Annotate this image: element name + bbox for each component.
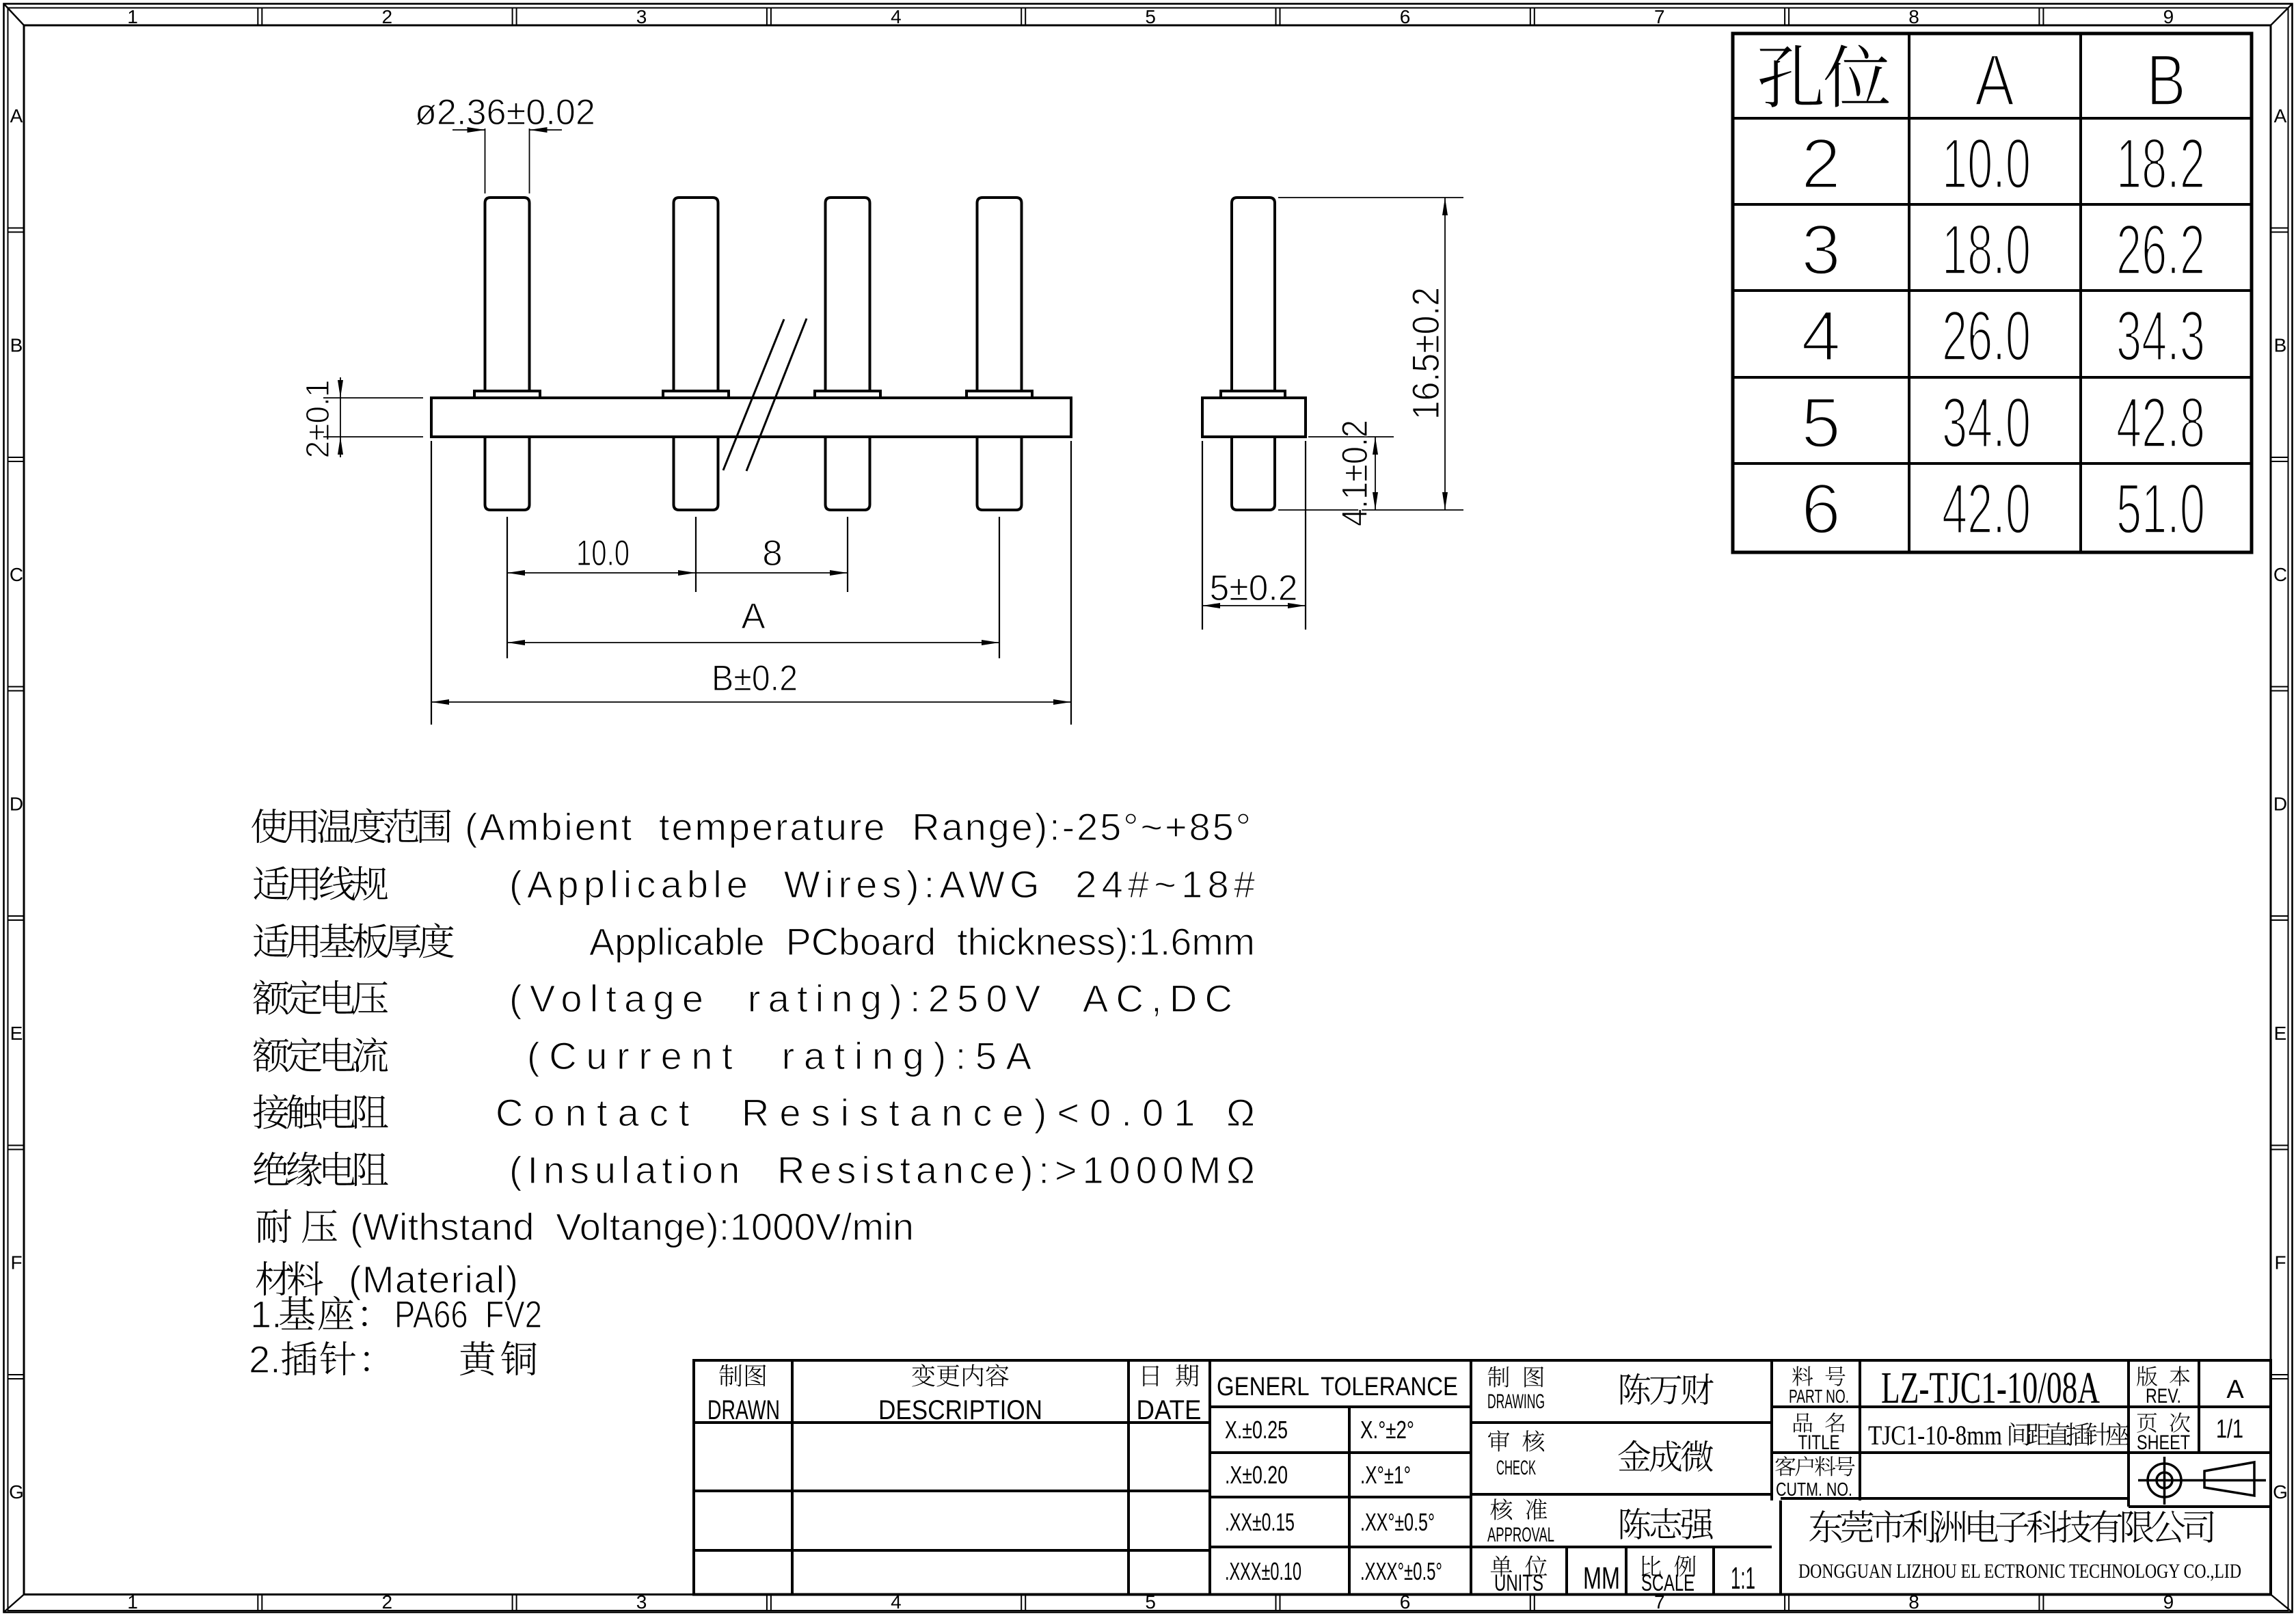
svg-text:DRAWING: DRAWING xyxy=(1487,1390,1545,1413)
hole position table grid xyxy=(1733,33,2252,552)
svg-text:CUTM. NO.: CUTM. NO. xyxy=(1776,1479,1852,1500)
svg-text:10.0: 10.0 xyxy=(576,533,630,574)
zone numbers top xyxy=(127,6,2174,27)
svg-text:4.1±0.2: 4.1±0.2 xyxy=(1335,420,1375,526)
header 日期 DATE xyxy=(1143,1364,1198,1386)
zone letters right xyxy=(2273,105,2288,1503)
dimension 4.1±0.2 lines xyxy=(1308,437,1394,510)
svg-text:18.2: 18.2 xyxy=(2116,124,2205,204)
title block grid xyxy=(694,1360,2271,1595)
dimension 16.5±0.2 lines xyxy=(1278,198,1463,510)
label 版本 REV. xyxy=(2137,1366,2190,1386)
svg-text:18.0: 18.0 xyxy=(1942,211,2031,290)
svg-text:2: 2 xyxy=(382,6,393,27)
front view pin 3 collar xyxy=(815,391,880,398)
svg-text:(Insulation Resistance):>1000: (Insulation Resistance):>1000MΩ xyxy=(509,1148,1255,1191)
svg-text:(Withstand Voltange):1000V/mi: (Withstand Voltange):1000V/min xyxy=(350,1205,914,1248)
spec line 材料 xyxy=(256,1261,323,1295)
svg-text:F: F xyxy=(10,1252,22,1274)
svg-text:26.2: 26.2 xyxy=(2116,211,2205,290)
side view collar xyxy=(1221,391,1285,398)
front view pin 4 collar xyxy=(967,391,1032,398)
svg-text:42.8: 42.8 xyxy=(2116,383,2205,463)
front view pin 2 upper shaft xyxy=(674,198,718,391)
table header 孔位 xyxy=(1759,45,1889,107)
svg-text:16.5±0.2: 16.5±0.2 xyxy=(1404,287,1447,420)
svg-text:3: 3 xyxy=(636,6,647,27)
svg-text:APPROVAL: APPROVAL xyxy=(1487,1524,1554,1546)
svg-text:(Voltage rating):250V AC,DC: (Voltage rating):250V AC,DC xyxy=(509,977,1232,1020)
svg-text:34.3: 34.3 xyxy=(2116,297,2205,376)
svg-text:2.: 2. xyxy=(249,1338,281,1381)
svg-text:F: F xyxy=(2274,1252,2286,1274)
svg-text:D: D xyxy=(2273,794,2287,815)
front view pin 2 collar xyxy=(663,391,729,398)
svg-text:9: 9 xyxy=(2163,6,2174,27)
svg-text:2±0.1: 2±0.1 xyxy=(300,380,336,459)
svg-text:10.0: 10.0 xyxy=(1942,124,2031,204)
svg-text:B: B xyxy=(2146,39,2186,121)
svg-text:.XXX°±0.5°: .XXX°±0.5° xyxy=(1360,1557,1442,1585)
svg-text:(Applicable Wires):AWG 24#~1: (Applicable Wires):AWG 24#~18# xyxy=(509,863,1255,906)
front view pin 1 upper shaft xyxy=(485,198,530,391)
svg-text:E: E xyxy=(10,1023,23,1044)
svg-text:6: 6 xyxy=(1400,6,1411,27)
svg-text:26.0: 26.0 xyxy=(1942,297,2031,376)
front view pin 1 collar xyxy=(474,391,540,398)
svg-text:DRAWN: DRAWN xyxy=(707,1395,780,1425)
spec line 耐压 xyxy=(256,1209,336,1243)
svg-text:PART NO.: PART NO. xyxy=(1789,1386,1849,1407)
svg-text:1:1: 1:1 xyxy=(1731,1561,1755,1595)
spec line 额定电流 xyxy=(253,1037,388,1072)
front view pin 1 lower shaft xyxy=(485,437,530,510)
side view body xyxy=(1202,398,1306,437)
svg-text:8: 8 xyxy=(762,533,782,574)
svg-text:4: 4 xyxy=(891,6,902,27)
header 变更内容 DESCRIPTION xyxy=(912,1364,1008,1386)
svg-text:DATE: DATE xyxy=(1137,1395,1202,1425)
side view body edge extension lines xyxy=(1202,441,1306,630)
svg-text:PA66 FV2: PA66 FV2 xyxy=(394,1293,542,1336)
svg-text:1: 1 xyxy=(127,6,138,27)
label 品名 TITLE xyxy=(1794,1412,1844,1432)
svg-text:D: D xyxy=(10,794,23,815)
svg-text:SCALE: SCALE xyxy=(1641,1570,1694,1596)
zone letters left xyxy=(9,105,24,1503)
spec line 额定电压 xyxy=(253,980,388,1014)
header 制图 DRAWN xyxy=(719,1364,766,1387)
svg-text:E: E xyxy=(2274,1023,2287,1044)
svg-text:REV.: REV. xyxy=(2146,1385,2181,1408)
svg-text:X.±0.25: X.±0.25 xyxy=(1225,1416,1288,1444)
name 陈志强 xyxy=(1621,1508,1713,1539)
zone ticks top and bottom xyxy=(258,9,2043,1611)
svg-text:Applicable PCboard thickness: Applicable PCboard thickness):1.6mm xyxy=(589,920,1255,963)
svg-text:TJC1-10-8mm: TJC1-10-8mm xyxy=(1868,1420,2002,1451)
company name CJK xyxy=(1809,1510,2214,1543)
svg-text:4: 4 xyxy=(1801,297,1841,376)
svg-text:LZ-TJC1-10/08A: LZ-TJC1-10/08A xyxy=(1881,1363,2100,1413)
svg-text:8: 8 xyxy=(1908,6,1919,27)
svg-text:42.0: 42.0 xyxy=(1942,470,2031,549)
front view pin 3 upper shaft xyxy=(826,198,870,391)
svg-text:A: A xyxy=(10,105,23,126)
label 页次 SHEET xyxy=(2137,1412,2190,1433)
side view pin upper shaft xyxy=(1232,198,1275,391)
front view pin 4 upper shaft xyxy=(977,198,1022,391)
svg-text:X.°±2°: X.°±2° xyxy=(1360,1416,1414,1444)
name 金成微 xyxy=(1619,1440,1714,1472)
label 单位 UNITS xyxy=(1491,1555,1548,1576)
svg-text:A: A xyxy=(1975,39,2015,121)
svg-text:3: 3 xyxy=(1801,211,1841,290)
spec line 适用线规 xyxy=(254,866,388,900)
name 陈万财 xyxy=(1621,1373,1714,1405)
spec line 接触电阻 xyxy=(253,1094,388,1129)
svg-text:B±0.2: B±0.2 xyxy=(712,658,798,699)
break symbol xyxy=(723,319,784,470)
front view connector body bar xyxy=(431,398,1071,437)
svg-text:(Ambient temperature Range):: (Ambient temperature Range):-25°~+85° xyxy=(465,805,1251,848)
svg-text:5: 5 xyxy=(1145,6,1156,27)
svg-text:5: 5 xyxy=(1801,383,1841,463)
svg-text:2: 2 xyxy=(382,1591,393,1613)
label 比例 SCALE xyxy=(1642,1556,1696,1577)
spec line 适用基板厚度 xyxy=(254,923,454,958)
svg-text:.X°±1°: .X°±1° xyxy=(1360,1461,1411,1489)
svg-text:1.: 1. xyxy=(250,1293,282,1336)
svg-text:C: C xyxy=(2273,564,2287,585)
svg-text:1: 1 xyxy=(127,1591,138,1613)
svg-text:A: A xyxy=(741,596,766,636)
dimension 2±0.1 lines xyxy=(323,377,423,457)
spec line 绝缘电阻 xyxy=(254,1152,388,1186)
svg-text:ø2.36±0.02: ø2.36±0.02 xyxy=(415,92,595,133)
svg-text:5±0.2: 5±0.2 xyxy=(1210,568,1298,608)
svg-text:.X±0.20: .X±0.20 xyxy=(1225,1461,1288,1489)
zone ticks left and right xyxy=(9,228,2288,1379)
svg-text:1/1: 1/1 xyxy=(2216,1415,2243,1444)
svg-text:2: 2 xyxy=(1801,124,1841,204)
svg-text:B: B xyxy=(2274,335,2287,356)
svg-text:3: 3 xyxy=(636,1591,647,1613)
svg-text:51.0: 51.0 xyxy=(2116,470,2205,549)
svg-text:6: 6 xyxy=(1801,470,1841,549)
label 制图 DRAWING xyxy=(1488,1366,1543,1388)
side view pin lower shaft xyxy=(1232,437,1275,510)
front view pin 3 lower shaft xyxy=(826,437,870,510)
spec line 使用温度范围 xyxy=(252,808,450,843)
svg-text:GENERL TOLERANCE: GENERL TOLERANCE xyxy=(1217,1373,1458,1401)
svg-text:SHEET: SHEET xyxy=(2137,1431,2190,1454)
svg-text:Contact Resistance)<0.01 Ω: Contact Resistance)<0.01 Ω xyxy=(496,1091,1255,1134)
svg-text:.XX°±0.5°: .XX°±0.5° xyxy=(1360,1508,1435,1536)
svg-text:G: G xyxy=(2273,1481,2288,1503)
front view pin 2 lower shaft xyxy=(674,437,718,510)
svg-text:(Current rating):5A: (Current rating):5A xyxy=(527,1034,1032,1077)
svg-text:MM: MM xyxy=(1583,1561,1620,1595)
svg-text:G: G xyxy=(9,1481,24,1503)
label 客户料号 CUTM. NO. xyxy=(1775,1456,1854,1476)
svg-text:DONGGUAN LIZHOU EL ECTRONIC TE: DONGGUAN LIZHOU EL ECTRONIC TECHNOLOGY C… xyxy=(1798,1560,2241,1583)
svg-text:.XXX±0.10: .XXX±0.10 xyxy=(1225,1557,1301,1585)
svg-text:A: A xyxy=(2274,105,2287,126)
svg-text:B: B xyxy=(10,335,23,356)
svg-text:CHECK: CHECK xyxy=(1496,1457,1536,1479)
svg-text:A: A xyxy=(2226,1375,2244,1404)
svg-text:UNITS: UNITS xyxy=(1494,1570,1543,1596)
svg-text:TITLE: TITLE xyxy=(1798,1431,1840,1454)
svg-text:.XX±0.15: .XX±0.15 xyxy=(1225,1508,1295,1536)
dimension ø2.36 lines xyxy=(453,129,562,193)
label 审核 CHECK xyxy=(1488,1430,1544,1451)
svg-text:C: C xyxy=(10,564,23,585)
label 料号 PART NO. xyxy=(1792,1366,1845,1386)
front view pin 4 lower shaft xyxy=(977,437,1022,510)
svg-text:34.0: 34.0 xyxy=(1942,383,2031,463)
svg-text:DESCRIPTION: DESCRIPTION xyxy=(878,1395,1042,1425)
svg-text:7: 7 xyxy=(1654,6,1665,27)
first angle projection symbol xyxy=(2138,1457,2266,1505)
label 核准 APPROVAL xyxy=(1490,1498,1547,1520)
pin centre extension lines below xyxy=(431,441,1071,725)
zone numbers bottom xyxy=(127,1591,2174,1613)
